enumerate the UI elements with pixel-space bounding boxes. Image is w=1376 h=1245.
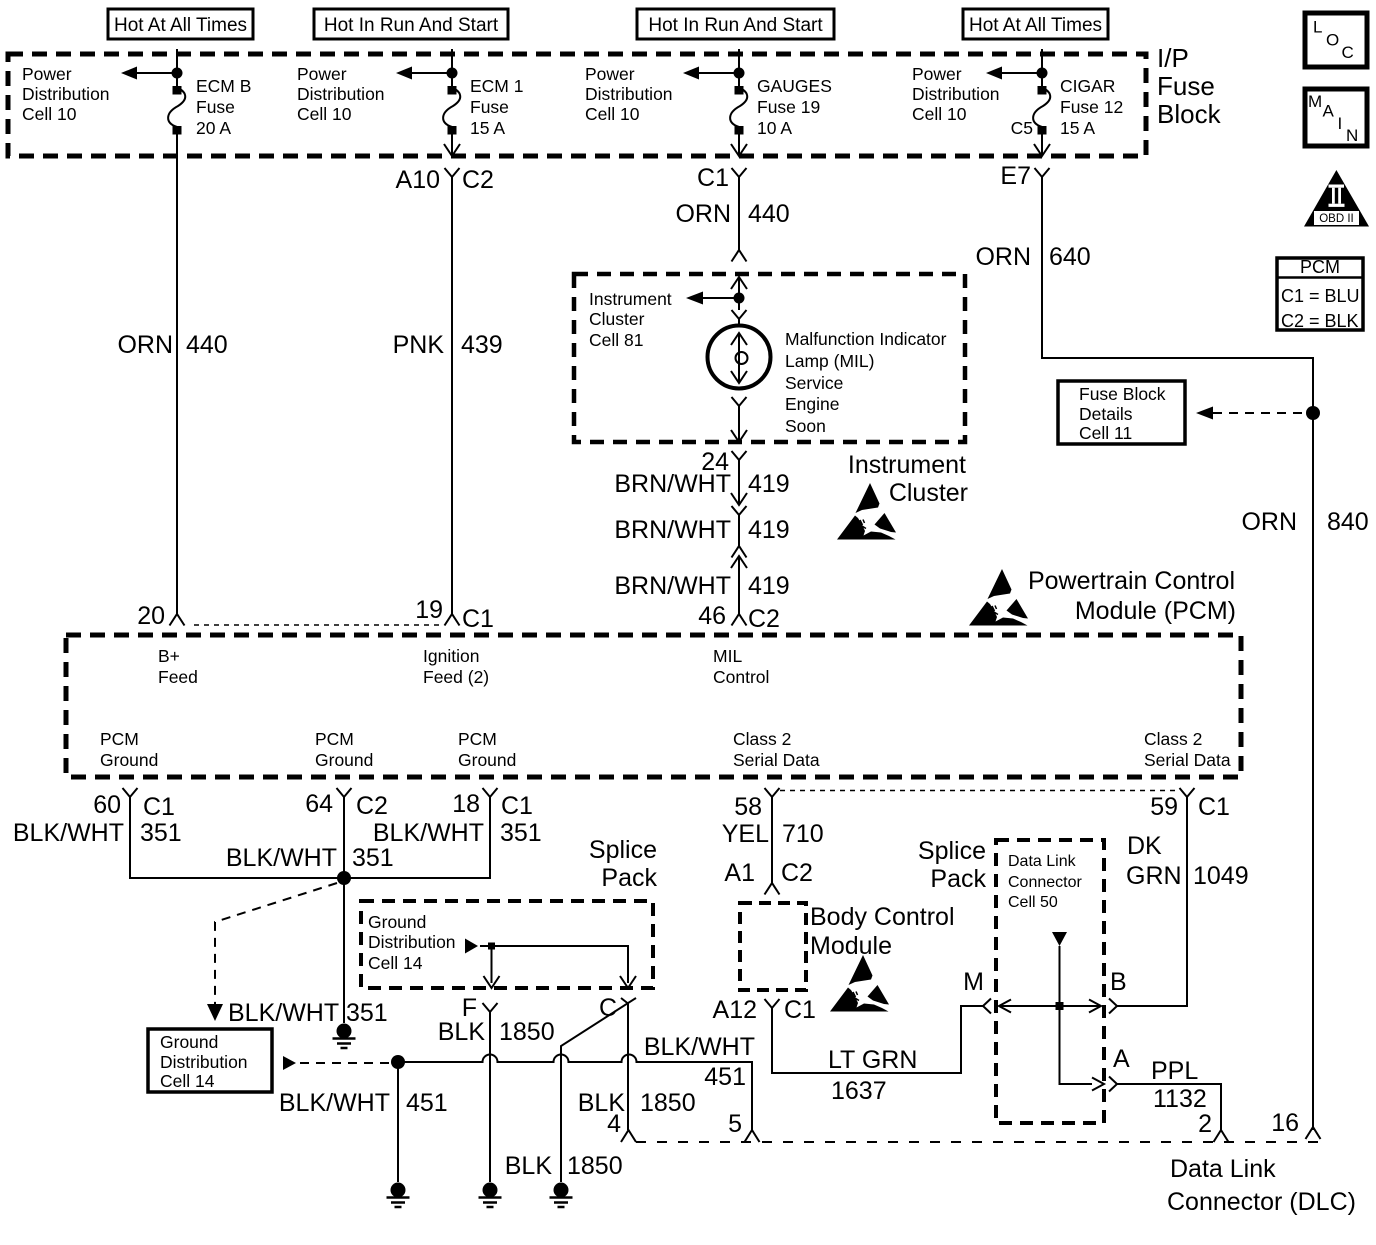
svg-text:Ground: Ground <box>100 750 158 770</box>
svg-text:1850: 1850 <box>640 1089 696 1117</box>
wire BLK 1850 (F) <box>438 1018 555 1046</box>
wire BLK/WHT 451 (horizontal to DLC pin 5) <box>398 1033 760 1142</box>
svg-text:Soon: Soon <box>785 416 826 436</box>
svg-text:M: M <box>963 968 984 996</box>
svg-text:Body Control: Body Control <box>810 903 955 931</box>
svg-text:Connector (DLC): Connector (DLC) <box>1167 1188 1356 1216</box>
svg-text:I/P: I/P <box>1157 43 1189 73</box>
svg-text:Module: Module <box>810 932 892 960</box>
svg-text:C1: C1 <box>1198 793 1230 821</box>
internal A arrow <box>1092 1078 1104 1091</box>
connector above MIL lamp <box>732 298 747 327</box>
svg-text:451: 451 <box>704 1063 746 1091</box>
svg-text:YEL: YEL <box>722 820 769 848</box>
label BLK/WHT 351 (splice) <box>228 999 388 1027</box>
svg-text:Feed (2): Feed (2) <box>423 667 489 687</box>
connector C <box>561 994 636 1182</box>
dashed arrow from ground distribution box <box>283 1056 392 1070</box>
svg-text:Hot At All Times: Hot At All Times <box>969 15 1102 36</box>
svg-text:I: I <box>1338 114 1343 133</box>
Malfunction Indicator Lamp label <box>785 329 947 436</box>
svg-text:710: 710 <box>782 820 824 848</box>
svg-text:351: 351 <box>140 819 182 847</box>
wire BRN/WHT 419 (1) <box>614 470 789 505</box>
wire PPL 1132 <box>1117 1057 1229 1142</box>
ESD symbol (BCM) <box>830 955 889 1012</box>
MAIN symbol box <box>1305 89 1367 146</box>
svg-text:B+: B+ <box>158 646 180 666</box>
connector A12/C1 <box>713 996 816 1024</box>
svg-text:Fuse 19: Fuse 19 <box>757 97 820 117</box>
svg-text:Serial Data: Serial Data <box>733 750 820 770</box>
svg-text:64: 64 <box>305 790 333 818</box>
wire BLK/WHT 351 (pin 18) <box>373 819 542 847</box>
wire YEL 710 <box>722 797 824 883</box>
wire ORN 840 <box>1241 508 1368 536</box>
wire BRN/WHT 419 (2) <box>614 516 789 558</box>
wire ORN 640 <box>975 177 1313 1130</box>
Splice Pack label (right) <box>918 837 987 893</box>
connector A1/C2 <box>724 859 813 895</box>
svg-text:C2: C2 <box>462 166 494 194</box>
svg-text:C1: C1 <box>784 996 816 1024</box>
connector B <box>1109 968 1127 1014</box>
thin dashed connector line pin20-pin19 <box>194 624 442 626</box>
svg-text:Fuse Block: Fuse Block <box>1079 384 1166 404</box>
svg-text:Ground: Ground <box>368 912 426 932</box>
svg-text:BLK: BLK <box>438 1018 486 1046</box>
Power Distribution Cell 10 label (fuse 2) <box>297 64 385 124</box>
svg-text:C: C <box>1342 43 1354 62</box>
svg-text:OBD II: OBD II <box>1319 213 1354 225</box>
svg-text:BRN/WHT: BRN/WHT <box>614 516 731 544</box>
svg-text:C1: C1 <box>143 793 175 821</box>
Data Link Connector (DLC) label <box>1167 1155 1356 1216</box>
svg-text:440: 440 <box>186 331 228 359</box>
header box: Hot In Run And Start (third) <box>637 9 834 39</box>
svg-text:Ground: Ground <box>458 750 516 770</box>
svg-text:Connector: Connector <box>1008 874 1082 891</box>
fuse CIGAR Fuse 12 15A <box>986 49 1123 156</box>
wire LT GRN 1637 <box>772 1006 983 1105</box>
Body Control Module dashed box <box>740 903 806 990</box>
svg-text:C2: C2 <box>781 859 813 887</box>
header box: Hot At All Times (left) <box>108 9 253 39</box>
connector E7 on cigar wire <box>1000 144 1050 190</box>
dashed arrow to Fuse Block Details <box>1196 407 1306 420</box>
svg-text:Cluster: Cluster <box>889 479 968 507</box>
wire BLK 1850 (C to DLC pin 4) <box>578 1089 696 1142</box>
DLC dashed line <box>636 1141 1322 1143</box>
svg-text:CIGAR: CIGAR <box>1060 76 1115 96</box>
fuse ECM 1 15A <box>396 49 523 156</box>
svg-text:Hot In Run And Start: Hot In Run And Start <box>648 15 823 36</box>
ESD symbol (instrument cluster) <box>837 483 896 540</box>
Instrument Cluster Cell 81 label <box>589 289 672 350</box>
PCM connector id table <box>1277 257 1363 331</box>
svg-text:351: 351 <box>346 999 388 1027</box>
Fuse Block Details Cell 11 box <box>1058 381 1185 444</box>
svg-text:C2 = BLK: C2 = BLK <box>1281 311 1359 331</box>
svg-text:Distribution: Distribution <box>912 84 1000 104</box>
svg-text:Class 2: Class 2 <box>733 729 791 749</box>
svg-text:A: A <box>1113 1045 1130 1073</box>
svg-text:Control: Control <box>713 667 769 687</box>
junction to fuse block details <box>1306 406 1320 420</box>
Data Link Connector Cell 50 dashed box (splice pack) <box>996 840 1104 1123</box>
svg-text:N: N <box>1346 126 1358 145</box>
wire inside cluster <box>738 277 740 298</box>
svg-text:1132: 1132 <box>1153 1085 1207 1113</box>
svg-text:18: 18 <box>452 790 480 818</box>
ground G (pin 64 wire) <box>333 1024 356 1049</box>
splice junction <box>337 871 351 885</box>
svg-text:Malfunction Indicator: Malfunction Indicator <box>785 329 947 349</box>
svg-text:Service: Service <box>785 373 843 393</box>
Instrument Cluster dashed box <box>574 274 965 442</box>
svg-text:Cell 81: Cell 81 <box>589 330 643 350</box>
connector below MIL lamp <box>731 397 747 442</box>
svg-text:351: 351 <box>500 819 542 847</box>
svg-text:E7: E7 <box>1000 162 1031 190</box>
svg-text:Lamp (MIL): Lamp (MIL) <box>785 351 874 371</box>
svg-text:20: 20 <box>137 602 165 630</box>
svg-text:Instrument: Instrument <box>848 451 966 479</box>
Powertrain Control Module title + ESD <box>1028 567 1236 625</box>
svg-text:19: 19 <box>415 596 443 624</box>
svg-text:Power: Power <box>22 64 72 84</box>
svg-text:59: 59 <box>1150 793 1178 821</box>
svg-text:Ground: Ground <box>315 750 373 770</box>
svg-text:Cell 11: Cell 11 <box>1079 423 1132 443</box>
wire BRN/WHT 419 (3) <box>614 572 789 633</box>
pin 60 C1 <box>93 788 175 821</box>
svg-text:Feed: Feed <box>158 667 198 687</box>
Body Control Module title <box>810 903 955 960</box>
svg-text:2: 2 <box>1198 1110 1212 1138</box>
Splice Pack label (left) <box>589 836 658 892</box>
svg-text:Distribution: Distribution <box>585 84 673 104</box>
svg-text:Power: Power <box>585 64 635 84</box>
svg-text:BLK/WHT: BLK/WHT <box>279 1089 390 1117</box>
wire BLK/WHT 351 (pin 64) <box>226 797 394 1023</box>
svg-text:Power: Power <box>297 64 347 84</box>
Power Distribution Cell 10 label (fuse 1) <box>22 64 110 124</box>
svg-text:640: 640 <box>1049 243 1091 271</box>
svg-text:Data Link: Data Link <box>1170 1155 1276 1183</box>
connector A <box>1109 1045 1130 1092</box>
svg-text:60: 60 <box>93 791 121 819</box>
pin 58 C2 <box>734 788 779 821</box>
svg-text:46: 46 <box>698 602 726 630</box>
svg-text:Splice: Splice <box>918 837 986 865</box>
svg-text:15 A: 15 A <box>470 118 505 138</box>
LOC symbol box <box>1305 13 1367 67</box>
Power Distribution Cell 10 label (fuse 4) <box>912 64 1000 124</box>
svg-text:GAUGES: GAUGES <box>757 76 832 96</box>
connector A10/C2 on PNK wire <box>396 144 494 614</box>
svg-text:Engine: Engine <box>785 394 840 414</box>
svg-text:Details: Details <box>1079 404 1133 424</box>
svg-text:A10: A10 <box>396 166 440 194</box>
svg-text:Module (PCM): Module (PCM) <box>1075 597 1236 625</box>
svg-text:Hot At All Times: Hot At All Times <box>114 15 247 36</box>
svg-text:PNK: PNK <box>393 331 445 359</box>
svg-text:Cluster: Cluster <box>589 309 645 329</box>
svg-text:Instrument: Instrument <box>589 289 672 309</box>
svg-text:C1: C1 <box>501 792 533 820</box>
svg-text:Cell 10: Cell 10 <box>22 104 77 124</box>
svg-text:M: M <box>1308 92 1322 111</box>
svg-text:1850: 1850 <box>567 1152 623 1180</box>
dashed link to ground distribution <box>207 883 337 1021</box>
svg-text:LT GRN: LT GRN <box>828 1046 917 1074</box>
svg-text:58: 58 <box>734 793 762 821</box>
svg-text:C2: C2 <box>748 605 780 633</box>
svg-text:BRN/WHT: BRN/WHT <box>614 470 731 498</box>
svg-text:ORN: ORN <box>117 331 173 359</box>
svg-text:Distribution: Distribution <box>160 1052 248 1072</box>
svg-text:O: O <box>1326 31 1339 50</box>
svg-text:Cell 14: Cell 14 <box>368 953 423 973</box>
svg-text:BLK: BLK <box>505 1152 553 1180</box>
junction dot (BLK/WHT 451 splice) <box>391 1055 405 1069</box>
svg-text:A1: A1 <box>724 859 755 887</box>
svg-text:10 A: 10 A <box>757 118 792 138</box>
svg-text:PPL: PPL <box>1151 1057 1198 1085</box>
arrow + internal wire of ground distribution splice <box>465 939 636 989</box>
Power Distribution Cell 10 label (fuse 3) <box>585 64 673 124</box>
svg-text:PCM: PCM <box>100 729 139 749</box>
svg-text:351: 351 <box>352 844 394 872</box>
inline connector <box>731 556 747 614</box>
I/P Fuse Block label <box>1157 43 1222 129</box>
svg-text:DK: DK <box>1127 832 1162 860</box>
svg-text:B: B <box>1110 968 1127 996</box>
ground G (C wire) <box>550 1183 573 1208</box>
wire PNK 439 <box>393 331 503 633</box>
svg-text:C5: C5 <box>1011 118 1033 138</box>
svg-text:Pack: Pack <box>601 864 657 892</box>
wire DK GRN 1049 <box>1117 797 1249 1006</box>
svg-text:1637: 1637 <box>831 1077 887 1105</box>
PCM pin labels row 2 <box>100 729 158 770</box>
arrow to Instrument Cluster label <box>686 292 739 305</box>
svg-text:GRN: GRN <box>1126 862 1182 890</box>
svg-text:Class 2: Class 2 <box>1144 729 1202 749</box>
fuse ECM B 20A <box>121 49 251 614</box>
svg-text:Cell 14: Cell 14 <box>160 1071 215 1091</box>
thin dashed connector line pin58-pin59 <box>780 790 1180 792</box>
svg-text:419: 419 <box>748 572 790 600</box>
svg-text:ORN: ORN <box>1241 508 1297 536</box>
svg-text:419: 419 <box>748 470 790 498</box>
pin 59 C1 <box>1150 788 1230 821</box>
svg-text:Distribution: Distribution <box>22 84 110 104</box>
svg-text:PCM: PCM <box>1300 257 1340 277</box>
Ground Distribution Cell 14 dashed box (splice pack) <box>361 901 653 988</box>
connector C1 on gauges wire <box>697 144 747 250</box>
svg-text:Hot In Run And Start: Hot In Run And Start <box>324 15 499 36</box>
svg-text:Serial Data: Serial Data <box>1144 750 1231 770</box>
svg-text:16: 16 <box>1271 1109 1299 1137</box>
svg-text:PCM: PCM <box>458 729 497 749</box>
svg-text:Fuse: Fuse <box>470 97 509 117</box>
wire ORN 440 (gauges) <box>675 200 789 262</box>
connector 24 below cluster <box>701 448 746 505</box>
svg-text:Splice: Splice <box>589 836 657 864</box>
svg-text:Distribution: Distribution <box>297 84 385 104</box>
svg-text:L: L <box>1313 18 1322 37</box>
splice pack internal: down triangle <box>1052 932 1067 946</box>
svg-text:C2: C2 <box>356 792 388 820</box>
svg-text:C1: C1 <box>462 605 494 633</box>
svg-text:BLK/WHT: BLK/WHT <box>373 819 484 847</box>
svg-text:ECM B: ECM B <box>196 76 251 96</box>
ESD symbol (PCM) <box>969 569 1028 626</box>
svg-text:1850: 1850 <box>499 1018 555 1046</box>
svg-text:439: 439 <box>461 331 503 359</box>
connector F <box>462 994 498 1182</box>
svg-text:BLK/WHT: BLK/WHT <box>228 999 339 1027</box>
svg-text:Cell 10: Cell 10 <box>585 104 640 124</box>
svg-text:5: 5 <box>728 1110 742 1138</box>
svg-text:Pack: Pack <box>930 865 986 893</box>
pin 18 C1 <box>452 788 533 820</box>
svg-text:1049: 1049 <box>1193 862 1249 890</box>
wire ORN 440 (ECM B feed) <box>117 331 227 630</box>
ground G (F wire) <box>479 1183 502 1208</box>
ground G (BLK/WHT 451) <box>387 1183 410 1208</box>
svg-text:BLK/WHT: BLK/WHT <box>644 1033 755 1061</box>
OBD II symbol <box>1304 170 1369 227</box>
svg-text:C1 = BLU: C1 = BLU <box>1281 286 1360 306</box>
svg-text:BRN/WHT: BRN/WHT <box>614 572 731 600</box>
svg-text:Block: Block <box>1157 99 1222 129</box>
svg-text:BLK/WHT: BLK/WHT <box>13 819 124 847</box>
svg-text:Fuse: Fuse <box>1157 71 1215 101</box>
DLC pin 16 <box>1271 1109 1320 1139</box>
svg-text:Cell 10: Cell 10 <box>297 104 352 124</box>
header box: Hot At All Times (right) <box>963 9 1108 39</box>
fuse GAUGES Fuse 19 10A <box>683 49 832 156</box>
svg-text:C1: C1 <box>697 164 729 192</box>
wire BLK/WHT 351 (pin 60) <box>13 797 490 878</box>
arrow into instrument cluster (top) <box>731 277 747 289</box>
pin 64 C2 <box>305 788 388 820</box>
Instrument Cluster title + ESD <box>848 451 968 507</box>
connector M <box>963 968 991 1014</box>
svg-text:Ground: Ground <box>160 1032 218 1052</box>
svg-text:Fuse: Fuse <box>196 97 235 117</box>
junction dot <box>734 293 745 304</box>
svg-text:Cell 10: Cell 10 <box>912 104 967 124</box>
MIL lamp (bulb) <box>708 326 771 389</box>
svg-text:451: 451 <box>406 1089 448 1117</box>
I/P fuse block dashed box <box>8 54 1146 156</box>
svg-text:Ignition: Ignition <box>423 646 479 666</box>
svg-text:840: 840 <box>1327 508 1369 536</box>
internal M-B wire with arrows <box>999 1000 1101 1013</box>
wire BLK/WHT 451 (to ground) <box>279 1062 448 1182</box>
svg-text:C: C <box>599 994 617 1022</box>
Ground Distribution Cell 14 box (solid) <box>148 1029 272 1092</box>
svg-text:MIL: MIL <box>713 646 742 666</box>
svg-text:PCM: PCM <box>315 729 354 749</box>
wire BLK 1850 (C to ground) <box>505 1152 623 1180</box>
svg-text:Data Link: Data Link <box>1008 853 1077 870</box>
svg-text:ORN: ORN <box>975 243 1031 271</box>
svg-text:440: 440 <box>748 200 790 228</box>
svg-text:A: A <box>1323 102 1335 121</box>
svg-text:20 A: 20 A <box>196 118 231 138</box>
svg-text:15 A: 15 A <box>1060 118 1095 138</box>
inline connector <box>732 506 747 546</box>
svg-text:Fuse 12: Fuse 12 <box>1060 97 1123 117</box>
svg-text:ORN: ORN <box>675 200 731 228</box>
svg-text:Cell 50: Cell 50 <box>1008 894 1058 911</box>
header box: Hot In Run And Start (second) <box>314 9 508 39</box>
svg-text:A12: A12 <box>713 996 757 1024</box>
PCM dashed box <box>66 635 1241 777</box>
svg-text:Distribution: Distribution <box>368 932 456 952</box>
svg-text:419: 419 <box>748 516 790 544</box>
svg-text:ECM 1: ECM 1 <box>470 76 523 96</box>
svg-text:Power: Power <box>912 64 962 84</box>
svg-text:BLK/WHT: BLK/WHT <box>226 844 337 872</box>
svg-text:4: 4 <box>607 1110 621 1138</box>
svg-text:Powertrain Control: Powertrain Control <box>1028 567 1235 595</box>
internal vertical wire <box>1060 946 1093 1084</box>
PCM pin labels row 1 <box>158 646 198 687</box>
